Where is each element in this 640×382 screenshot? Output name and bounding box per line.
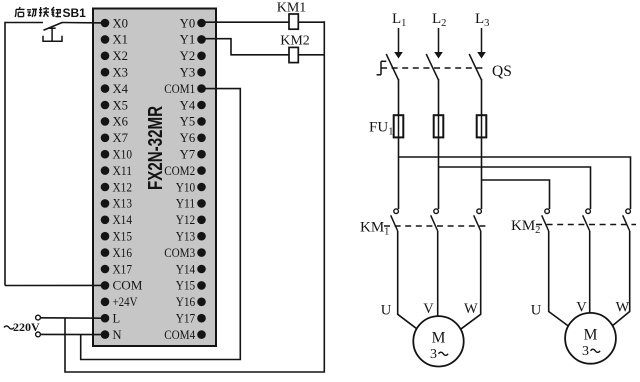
svg-text:Y12: Y12 bbox=[176, 213, 196, 227]
PLC output terminal Y5 bbox=[180, 115, 206, 129]
wire: supply to PLC terminal L bbox=[41, 317, 105, 319]
PLC output terminal Y0 bbox=[180, 16, 206, 30]
svg-text:W: W bbox=[464, 301, 478, 317]
contactor coil KM2 bbox=[289, 47, 298, 62]
PLC input terminal X11 bbox=[101, 164, 132, 178]
svg-text:X0: X0 bbox=[113, 16, 129, 30]
PLC output terminal Y3 bbox=[180, 66, 206, 80]
svg-text:X2: X2 bbox=[113, 49, 129, 63]
PLC input terminal COM bbox=[101, 279, 143, 293]
svg-text:KM2: KM2 bbox=[280, 34, 310, 49]
fuse FU1 element pole 3 bbox=[477, 115, 487, 137]
svg-text:KM1: KM1 bbox=[277, 1, 307, 16]
PLC input terminal X14 bbox=[101, 213, 133, 227]
svg-text:U: U bbox=[531, 303, 542, 319]
svg-text:M: M bbox=[584, 327, 598, 344]
svg-text:Y16: Y16 bbox=[176, 295, 196, 309]
motor M2 (3-phase) bbox=[565, 313, 616, 364]
PLC input terminal X17 bbox=[101, 262, 132, 276]
svg-text:M: M bbox=[432, 330, 446, 347]
wire: branch L1 to KM2 pole 3 bbox=[399, 157, 631, 209]
phase L2 incoming arrow bbox=[434, 28, 443, 59]
PLC output terminal Y6 bbox=[180, 131, 206, 145]
PLC output terminal Y13 bbox=[176, 230, 206, 244]
wire: Y1 to coil KM2 bbox=[203, 39, 289, 55]
pushbutton SB1 (NO contact with operator) bbox=[43, 22, 62, 41]
PLC output terminal Y17 bbox=[176, 312, 206, 326]
svg-text:Y13: Y13 bbox=[176, 230, 196, 244]
wire: KM2 pole 3 to motor M2 terminal W bbox=[612, 231, 630, 327]
contactor KM2 main contact pole 2 bbox=[583, 209, 591, 231]
wire: branch L3 to KM2 pole 1 bbox=[482, 180, 550, 209]
PLC input terminal X7 bbox=[101, 131, 128, 145]
phase L3 incoming arrow bbox=[477, 28, 486, 59]
wire inside fuse pole 2 bbox=[438, 115, 440, 138]
svg-text:X5: X5 bbox=[113, 98, 129, 112]
svg-text:Y15: Y15 bbox=[176, 279, 196, 293]
PLC module FX2N-32MR body bbox=[93, 9, 216, 347]
PLC output terminal Y2 bbox=[180, 49, 206, 63]
PLC input terminal +24V bbox=[101, 295, 138, 309]
PLC input terminal N bbox=[101, 328, 122, 342]
wire: COM to left rail (vertical) bbox=[4, 22, 6, 286]
wire: KM2 pole 1 to motor M2 terminal U bbox=[549, 231, 569, 327]
fuse FU1 element pole 1 bbox=[394, 115, 404, 137]
PLC output terminal Y4 bbox=[180, 98, 206, 112]
svg-text:Y10: Y10 bbox=[176, 180, 196, 194]
svg-text:X3: X3 bbox=[113, 66, 129, 80]
contactor KM2 main contact pole 1 bbox=[542, 209, 550, 231]
contactor KM1 main contact pole 3 bbox=[474, 209, 482, 231]
svg-text:+24V: +24V bbox=[113, 295, 138, 309]
wire: KM2 pole 2 to motor M2 terminal V bbox=[589, 231, 591, 313]
PLC output terminal Y14 bbox=[176, 262, 206, 276]
svg-text:X14: X14 bbox=[113, 213, 133, 227]
PLC input terminal X12 bbox=[101, 180, 132, 194]
svg-text:X7: X7 bbox=[113, 131, 129, 145]
PLC input terminal X16 bbox=[101, 246, 132, 260]
wire: QS pole 1 down through fuse to KM1 contact bbox=[398, 79, 400, 209]
PLC output terminal COM4 bbox=[164, 328, 206, 342]
svg-text:L: L bbox=[113, 312, 121, 326]
wire: branch L2 to KM2 pole 2 bbox=[439, 167, 591, 209]
wire: supply to PLC terminal N bbox=[41, 333, 105, 335]
PLC output terminal COM1 bbox=[164, 82, 206, 96]
svg-text:COM: COM bbox=[113, 279, 143, 293]
svg-text:QS: QS bbox=[492, 63, 512, 80]
KM2 mechanical link (dashed) bbox=[536, 224, 636, 226]
contactor KM2 main contact pole 3 bbox=[623, 209, 631, 231]
svg-text:Y14: Y14 bbox=[176, 262, 196, 276]
wire: coil KM2 to return rail bbox=[298, 54, 324, 56]
disconnect switch QS blade pole 1 bbox=[386, 54, 398, 80]
wire: left rail to SB1 bbox=[5, 22, 43, 24]
wire: N branch to COM1 bbox=[81, 89, 241, 360]
svg-text:220V: 220V bbox=[13, 320, 40, 334]
PLC output terminal Y12 bbox=[176, 213, 206, 227]
svg-text:X12: X12 bbox=[113, 180, 133, 194]
wire: KM1 pole 1 to motor M1 terminal U bbox=[398, 231, 418, 329]
svg-text:X6: X6 bbox=[113, 115, 129, 129]
PLC input terminal X1 bbox=[101, 33, 128, 47]
PLC input terminal X10 bbox=[101, 148, 132, 162]
svg-text:SB1: SB1 bbox=[63, 6, 87, 20]
disconnect switch QS blade pole 2 bbox=[426, 54, 438, 80]
svg-text:X17: X17 bbox=[113, 262, 133, 276]
svg-text:Y11: Y11 bbox=[176, 197, 196, 211]
label: start button 启动按钮SB1 bbox=[15, 6, 86, 20]
wire: KM1 pole 3 to motor M1 terminal W bbox=[461, 231, 481, 329]
supply terminal circle (to L) bbox=[36, 315, 41, 320]
svg-text:Y1: Y1 bbox=[180, 33, 196, 47]
contactor KM1 main contact pole 2 bbox=[431, 209, 439, 231]
svg-text:Y3: Y3 bbox=[180, 66, 196, 80]
svg-text:COM1: COM1 bbox=[164, 82, 195, 96]
PLC input terminal X13 bbox=[101, 197, 132, 211]
PLC input terminal X15 bbox=[101, 230, 132, 244]
svg-text:V: V bbox=[423, 301, 434, 317]
wire: coil KM1 to return rail bbox=[298, 21, 324, 23]
wire: QS pole 3 down through fuse to KM1 contact bbox=[481, 79, 483, 209]
svg-text:COM3: COM3 bbox=[164, 246, 195, 260]
svg-text:3: 3 bbox=[430, 347, 437, 362]
svg-text:X10: X10 bbox=[113, 148, 133, 162]
svg-text:COM4: COM4 bbox=[164, 328, 196, 342]
disconnect switch QS blade pole 3 bbox=[469, 54, 481, 80]
wire: KM1 pole 2 to motor M1 terminal V bbox=[437, 231, 439, 316]
svg-text:U: U bbox=[381, 303, 392, 319]
PLC input terminal X2 bbox=[101, 49, 128, 63]
phase L1 incoming arrow bbox=[394, 28, 403, 59]
svg-text:Y7: Y7 bbox=[180, 148, 196, 162]
wire: QS pole 2 down through fuse to KM1 contact bbox=[438, 79, 440, 209]
svg-text:Y4: Y4 bbox=[180, 98, 196, 112]
wire: SB1 to X0 bbox=[62, 22, 105, 24]
PLC output terminal COM2 bbox=[164, 164, 206, 178]
svg-text:Y5: Y5 bbox=[180, 115, 196, 129]
svg-text:X11: X11 bbox=[113, 164, 133, 178]
svg-text:Y6: Y6 bbox=[180, 131, 196, 145]
PLC output terminal Y7 bbox=[180, 148, 206, 162]
svg-text:N: N bbox=[113, 328, 122, 342]
svg-text:COM2: COM2 bbox=[164, 164, 195, 178]
wire inside fuse pole 1 bbox=[398, 115, 400, 138]
svg-text:3: 3 bbox=[582, 344, 589, 359]
PLC input terminal X5 bbox=[101, 98, 128, 112]
PLC input terminal X3 bbox=[101, 66, 128, 80]
contactor KM1 main contact pole 1 bbox=[391, 209, 399, 231]
svg-text:X4: X4 bbox=[113, 82, 129, 96]
svg-text:X15: X15 bbox=[113, 230, 133, 244]
PLC output terminal Y1 bbox=[180, 33, 206, 47]
PLC output terminal Y10 bbox=[176, 180, 206, 194]
svg-text:Y2: Y2 bbox=[180, 49, 196, 63]
PLC input terminal L bbox=[101, 312, 120, 326]
svg-text:X13: X13 bbox=[113, 197, 133, 211]
AC supply label ~220V bbox=[4, 326, 14, 329]
PLC output terminal COM3 bbox=[164, 246, 206, 260]
svg-text:X16: X16 bbox=[113, 246, 133, 260]
PLC output terminal Y15 bbox=[176, 279, 206, 293]
supply terminal circle (to N) bbox=[36, 332, 41, 337]
motor M1 (3-phase) bbox=[413, 316, 463, 366]
PLC output terminal Y16 bbox=[176, 295, 206, 309]
svg-text:Y0: Y0 bbox=[180, 16, 196, 30]
PLC input terminal X6 bbox=[101, 115, 128, 129]
fuse FU1 element pole 2 bbox=[434, 115, 444, 137]
svg-text:W: W bbox=[616, 300, 630, 316]
PLC input terminal X4 bbox=[101, 82, 129, 96]
PLC input terminal X0 bbox=[101, 16, 128, 30]
PLC output terminal Y11 bbox=[176, 197, 206, 211]
contactor coil KM1 bbox=[289, 14, 298, 29]
wire: L branch to KM coil return rail bbox=[65, 21, 324, 372]
wire inside fuse pole 3 bbox=[481, 115, 483, 138]
svg-text:Y17: Y17 bbox=[176, 312, 196, 326]
wire: Y0 to coil KM1 bbox=[203, 21, 289, 23]
svg-text:X1: X1 bbox=[113, 33, 129, 47]
QS operating handle bbox=[377, 61, 387, 75]
QS mechanical link (dashed) bbox=[381, 67, 487, 69]
KM1 mechanical link (dashed) bbox=[384, 225, 486, 227]
